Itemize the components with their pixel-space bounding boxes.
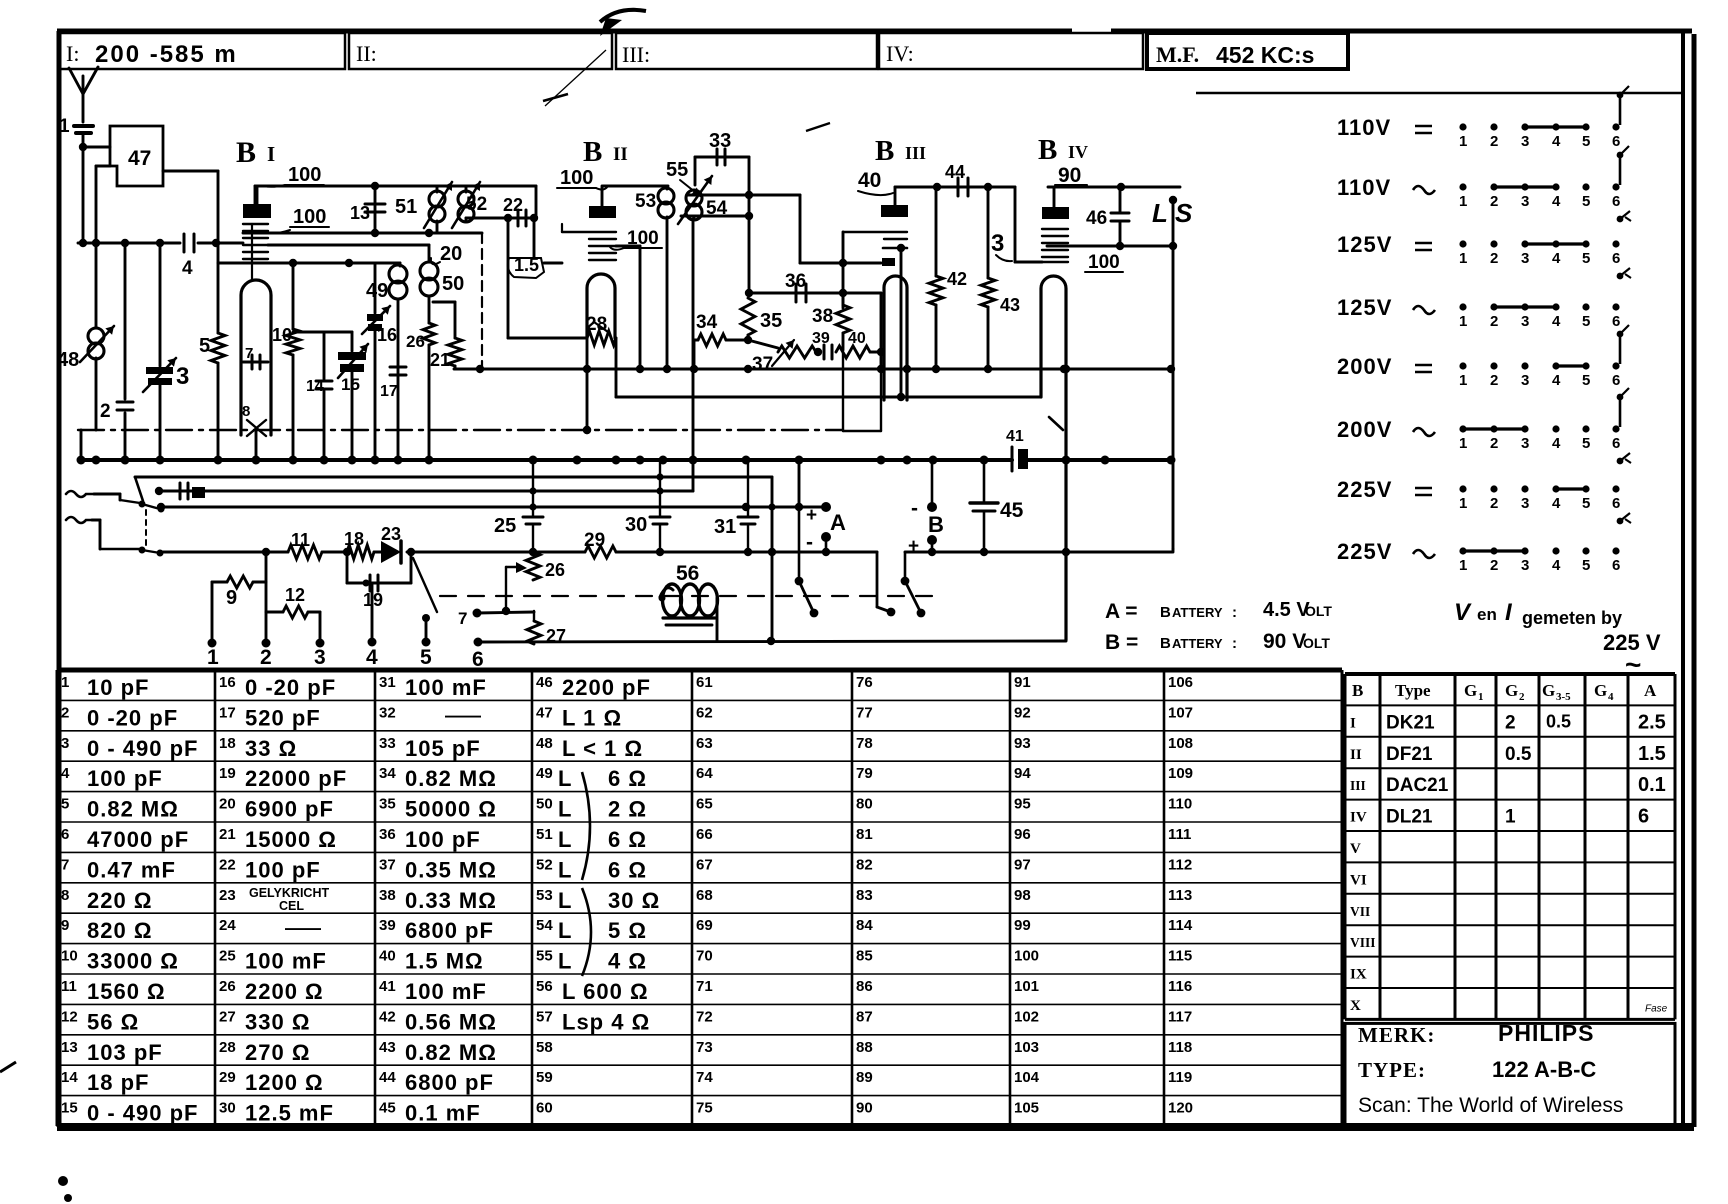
switch A fixed contact	[877, 552, 895, 616]
svg-text:Type: Type	[1395, 681, 1431, 700]
svg-text:2: 2	[1490, 557, 1498, 574]
resistor 26 (volume pot)	[506, 552, 565, 611]
svg-text:4: 4	[1552, 372, 1561, 389]
svg-text:93: 93	[1014, 735, 1031, 752]
resistor 43	[981, 187, 1020, 369]
svg-text:89: 89	[856, 1069, 873, 1086]
svg-text:B: B	[236, 136, 256, 169]
svg-text:78: 78	[856, 735, 873, 752]
svg-text:23: 23	[219, 887, 236, 904]
wire second antenna leg	[80, 430, 83, 460]
svg-text:14: 14	[61, 1069, 78, 1086]
svg-text:4: 4	[61, 765, 70, 782]
wire grid bus y245	[268, 244, 429, 247]
svg-text:gemeten by: gemeten by	[1522, 608, 1622, 628]
svg-text:48: 48	[536, 735, 553, 752]
capacitor 17	[380, 367, 406, 400]
svg-text:113: 113	[1168, 887, 1192, 904]
wire grid return drop x508	[507, 218, 510, 338]
svg-text:30 Ω: 30 Ω	[608, 888, 660, 913]
svg-text:32: 32	[379, 704, 396, 721]
band switch box 47	[110, 126, 163, 186]
svg-text:2: 2	[61, 704, 69, 721]
svg-text:100: 100	[560, 167, 593, 189]
cathode mark B IV	[1049, 417, 1063, 430]
svg-text:V: V	[1350, 841, 1361, 857]
wire AVC drop to 1.5	[533, 218, 536, 257]
svg-text:II:: II:	[356, 41, 377, 66]
wire y246 to LS	[1047, 242, 1177, 250]
svg-text:52: 52	[466, 194, 487, 215]
svg-text:en: en	[1477, 605, 1497, 624]
resistor 10	[272, 263, 300, 460]
svg-text:108: 108	[1168, 735, 1193, 752]
svg-text:4: 4	[1552, 313, 1561, 330]
tube B IV envelope	[1041, 276, 1066, 640]
svg-text:85: 85	[856, 948, 873, 965]
svg-text:4 Ω: 4 Ω	[608, 949, 647, 974]
svg-text:G: G	[1464, 681, 1477, 700]
wire screen drop x843	[843, 232, 881, 431]
svg-text:79: 79	[856, 765, 873, 782]
brace 53-55	[582, 888, 591, 976]
svg-text:V: V	[1454, 599, 1472, 626]
svg-text:43: 43	[1000, 295, 1020, 315]
shield cap blob B I	[243, 186, 271, 218]
svg-text:28: 28	[586, 314, 607, 335]
svg-text:0.82 MΩ: 0.82 MΩ	[405, 1040, 497, 1065]
svg-text:5: 5	[1582, 133, 1590, 150]
svg-text:20: 20	[440, 243, 462, 265]
svg-text:2: 2	[1519, 691, 1525, 703]
svg-text:1: 1	[1459, 133, 1467, 150]
svg-text:33000 Ω: 33000 Ω	[87, 949, 179, 974]
capacitor 7 (in tube I)	[243, 345, 268, 369]
svg-text:6: 6	[1612, 193, 1620, 210]
variable coil 52	[452, 182, 487, 228]
header band cells	[59, 33, 1348, 69]
svg-text:87: 87	[856, 1008, 873, 1025]
label 100 (screen)	[270, 206, 329, 233]
svg-text:47: 47	[128, 147, 151, 170]
wire top link 14/15	[293, 331, 352, 334]
cathode mark B II	[594, 322, 608, 332]
svg-text:105: 105	[1014, 1100, 1039, 1117]
svg-text:60: 60	[536, 1100, 553, 1117]
svg-text:100 pF: 100 pF	[87, 766, 163, 791]
svg-text:DK21: DK21	[1386, 712, 1435, 733]
svg-text:6 Ω: 6 Ω	[608, 857, 647, 882]
svg-text:2: 2	[1490, 313, 1498, 330]
svg-text:5: 5	[1582, 313, 1590, 330]
svg-text:5: 5	[61, 796, 69, 813]
svg-text:50000 Ω: 50000 Ω	[405, 797, 497, 822]
brace 49-52	[582, 772, 590, 880]
svg-text:CEL: CEL	[279, 899, 304, 913]
variable coil 51	[395, 182, 452, 233]
svg-text:520 pF: 520 pF	[245, 705, 321, 730]
svg-text:ATTERY: ATTERY	[1172, 605, 1223, 620]
svg-text:1: 1	[61, 674, 69, 691]
svg-text:33: 33	[709, 130, 731, 152]
wire box47 notch down	[92, 166, 110, 247]
grid wire B III	[843, 232, 907, 239]
variable coil 48	[57, 243, 114, 430]
trimmer capacitor 16	[362, 263, 397, 460]
svg-text:31: 31	[714, 516, 736, 538]
svg-text:66: 66	[696, 826, 713, 843]
svg-text:S: S	[1175, 198, 1193, 228]
svg-text:7: 7	[458, 609, 467, 628]
svg-text:6: 6	[1612, 133, 1620, 150]
label 100 (BII anode)	[557, 167, 608, 190]
svg-text:29: 29	[219, 1069, 236, 1086]
svg-text:0.1 mF: 0.1 mF	[405, 1101, 481, 1126]
svg-text:L < 1 Ω: L < 1 Ω	[562, 736, 643, 761]
svg-text:6800 pF: 6800 pF	[405, 918, 494, 943]
svg-text:42: 42	[947, 269, 967, 289]
svg-text:30: 30	[625, 514, 647, 536]
svg-text:0 - 490 pF: 0 - 490 pF	[87, 1101, 198, 1126]
svg-text:1: 1	[1459, 557, 1467, 574]
parts value table	[57, 670, 1342, 1126]
svg-text:PHILIPS: PHILIPS	[1498, 1020, 1594, 1046]
shield cap blob B IV	[1042, 207, 1069, 219]
svg-text:41: 41	[1006, 428, 1024, 445]
svg-text:20: 20	[219, 796, 236, 813]
svg-text:100: 100	[293, 206, 326, 228]
svg-text:1: 1	[1459, 495, 1467, 512]
svg-text:0.5: 0.5	[1546, 711, 1571, 731]
svg-text:68: 68	[696, 887, 713, 904]
svg-text:DAC21: DAC21	[1386, 775, 1449, 796]
shield cap blob B II	[589, 206, 616, 218]
capacitor 13	[350, 186, 385, 233]
resistor 40	[836, 293, 885, 369]
svg-text:L: L	[558, 888, 571, 913]
svg-text:0.1: 0.1	[1638, 774, 1666, 796]
svg-text:17: 17	[380, 383, 398, 400]
tube data table	[1345, 674, 1675, 1019]
svg-text:1: 1	[1505, 807, 1516, 828]
svg-text:2: 2	[1490, 250, 1498, 267]
svg-text:100 mF: 100 mF	[245, 949, 327, 974]
svg-text:15000 Ω: 15000 Ω	[245, 827, 337, 852]
svg-text:51: 51	[395, 196, 417, 218]
svg-text:94: 94	[1014, 765, 1031, 782]
wire y338 to resistor 28	[508, 337, 587, 340]
svg-text:67: 67	[696, 856, 713, 873]
svg-text:5: 5	[420, 646, 432, 669]
svg-text:5: 5	[1582, 193, 1590, 210]
svg-text:OLT: OLT	[1303, 635, 1330, 651]
svg-text:18: 18	[344, 529, 364, 549]
wire y186 to y218 drop	[535, 186, 538, 218]
tap row 110V ~	[1337, 146, 1631, 222]
svg-text:100 pF: 100 pF	[405, 827, 481, 852]
tap row 125V =	[1337, 232, 1631, 279]
svg-text:36: 36	[785, 271, 806, 292]
svg-text:39: 39	[379, 917, 396, 934]
svg-text:L: L	[558, 797, 571, 822]
svg-text:109: 109	[1168, 765, 1193, 782]
svg-text:82: 82	[856, 856, 873, 873]
svg-text:200V: 200V	[1337, 417, 1392, 442]
svg-text:3: 3	[176, 363, 189, 390]
svg-text:220 Ω: 220 Ω	[87, 888, 152, 913]
capacitor 36	[749, 271, 881, 302]
svg-text:6: 6	[1612, 372, 1620, 389]
svg-text:107: 107	[1168, 704, 1193, 721]
svg-text:81: 81	[856, 826, 873, 843]
svg-text:13: 13	[350, 203, 370, 223]
grid stack B II	[562, 224, 616, 260]
svg-text:G: G	[1542, 681, 1555, 700]
svg-text:41: 41	[379, 978, 396, 995]
svg-text:ATTERY: ATTERY	[1172, 636, 1223, 651]
svg-text:46: 46	[536, 674, 553, 691]
capacitor 41	[1006, 428, 1028, 471]
svg-text:0.33 MΩ: 0.33 MΩ	[405, 888, 497, 913]
svg-text:0 -20 pF: 0 -20 pF	[87, 705, 178, 730]
label 20 with leader	[431, 243, 462, 265]
svg-text:A: A	[1644, 681, 1657, 700]
svg-text:18 pF: 18 pF	[87, 1070, 149, 1095]
svg-text:2200 Ω: 2200 Ω	[245, 979, 324, 1004]
svg-text:26: 26	[406, 332, 425, 351]
svg-text:L: L	[558, 857, 571, 882]
svg-text:B: B	[928, 512, 944, 537]
svg-text:65: 65	[696, 796, 713, 813]
svg-text:53: 53	[536, 887, 553, 904]
svg-text:38: 38	[379, 887, 396, 904]
switch A lever	[795, 507, 819, 617]
svg-text:95: 95	[1014, 796, 1031, 813]
svg-text:24: 24	[219, 917, 236, 934]
svg-text:102: 102	[1014, 1008, 1039, 1025]
svg-text:39: 39	[812, 330, 830, 347]
svg-text:46: 46	[1086, 208, 1107, 229]
svg-text:34: 34	[696, 312, 718, 333]
wire chassis dash-dot y430	[78, 426, 843, 434]
svg-text:100 mF: 100 mF	[405, 979, 487, 1004]
battery B terminals	[908, 460, 944, 557]
wire y233 drop (dashed)	[481, 233, 483, 369]
svg-text:75: 75	[696, 1100, 713, 1117]
svg-text:10 pF: 10 pF	[87, 675, 149, 700]
svg-text:125V: 125V	[1337, 232, 1392, 257]
svg-text:8: 8	[61, 887, 69, 904]
svg-text:88: 88	[856, 1039, 873, 1056]
svg-text:28: 28	[219, 1039, 236, 1056]
svg-text:6800 pF: 6800 pF	[405, 1070, 494, 1095]
capacitor 4	[182, 234, 194, 279]
svg-text:31: 31	[379, 674, 396, 691]
svg-text:5: 5	[1582, 250, 1590, 267]
svg-text:A: A	[830, 510, 846, 535]
svg-text:116: 116	[1168, 978, 1192, 995]
svg-text:112: 112	[1168, 856, 1192, 873]
svg-text:3: 3	[1521, 557, 1529, 574]
mains input prongs	[66, 491, 120, 549]
svg-text:3: 3	[1521, 133, 1529, 150]
resistor 18	[344, 529, 374, 559]
svg-text:4: 4	[1552, 250, 1561, 267]
svg-text:76: 76	[856, 674, 873, 691]
wire BII screen drop	[616, 246, 640, 368]
svg-text:200 -585 m: 200 -585 m	[95, 41, 238, 68]
label 90 underlined	[1055, 164, 1087, 187]
svg-text:110V: 110V	[1337, 175, 1391, 200]
wire AVC vertical x749	[745, 157, 753, 297]
svg-text:42: 42	[379, 1008, 396, 1025]
trimmer capacitor 3	[143, 243, 189, 460]
svg-text:IV:: IV:	[886, 41, 914, 66]
label 100 (anode)	[264, 164, 324, 187]
resistor 12 branch	[266, 585, 320, 643]
svg-text:57: 57	[536, 1008, 553, 1025]
svg-text:52: 52	[536, 856, 553, 873]
svg-text:77: 77	[856, 704, 873, 721]
svg-text:50: 50	[536, 796, 553, 813]
svg-text:5: 5	[1582, 372, 1590, 389]
svg-text:330 Ω: 330 Ω	[245, 1009, 310, 1034]
svg-text:15: 15	[61, 1100, 78, 1117]
svg-text:DL21: DL21	[1386, 807, 1433, 828]
svg-text:100: 100	[1088, 252, 1120, 273]
svg-text:M.F.: M.F.	[1156, 42, 1199, 67]
resistor 34	[694, 312, 752, 369]
svg-text:6: 6	[1612, 495, 1620, 512]
svg-text:15: 15	[341, 375, 360, 394]
svg-text:44: 44	[945, 162, 965, 182]
svg-text:72: 72	[696, 1008, 713, 1025]
svg-text:B: B	[583, 136, 602, 168]
svg-text:3: 3	[61, 735, 69, 752]
svg-text:DF21: DF21	[1386, 744, 1433, 765]
svg-text:2: 2	[1490, 133, 1498, 150]
wire rail y477	[135, 477, 772, 501]
svg-text:37: 37	[752, 354, 773, 375]
svg-text:36: 36	[379, 826, 396, 843]
tap row 200V ~	[1337, 388, 1631, 464]
svg-text:69: 69	[696, 917, 713, 934]
svg-text:92: 92	[1014, 704, 1031, 721]
svg-text:33: 33	[379, 735, 396, 752]
grid stack B I	[243, 224, 268, 280]
svg-text:117: 117	[1168, 1008, 1192, 1025]
svg-text:45: 45	[1000, 499, 1024, 522]
svg-text:99: 99	[1014, 917, 1031, 934]
note V en I gemeten by	[1454, 599, 1661, 680]
svg-text:1: 1	[207, 646, 219, 669]
svg-text:56: 56	[536, 978, 553, 995]
label 55 with arrow	[666, 159, 700, 196]
svg-text:1: 1	[1478, 691, 1484, 703]
svg-text:1560 Ω: 1560 Ω	[87, 979, 166, 1004]
switch contact capacitor 11s	[180, 483, 205, 499]
svg-text:G: G	[1594, 681, 1607, 700]
svg-text:19: 19	[363, 590, 383, 610]
svg-text:11: 11	[291, 530, 310, 550]
wire antenna to box	[79, 143, 110, 151]
output coil 56	[659, 562, 718, 641]
capacitor 30	[625, 460, 670, 552]
label 100 (BIV)	[1085, 252, 1123, 273]
svg-text:L: L	[558, 766, 571, 791]
svg-text:3-5: 3-5	[1556, 691, 1571, 703]
wire anode feed y186	[255, 182, 536, 204]
svg-text:16: 16	[219, 674, 236, 691]
svg-text:2: 2	[100, 401, 111, 422]
svg-text:50: 50	[442, 273, 464, 295]
svg-text:VIII: VIII	[1350, 935, 1376, 950]
tap row 110V =	[1337, 86, 1629, 150]
svg-text:4: 4	[1552, 133, 1561, 150]
svg-text:3: 3	[991, 230, 1004, 257]
svg-text:84: 84	[856, 917, 873, 934]
svg-text:3: 3	[1521, 250, 1529, 267]
capacitor 2	[100, 243, 133, 460]
svg-text:103 pF: 103 pF	[87, 1040, 163, 1065]
anode bar B III	[800, 244, 907, 397]
wire main bus y460	[77, 456, 1176, 465]
svg-text:54: 54	[536, 917, 553, 934]
svg-text:27: 27	[219, 1008, 236, 1025]
svg-text:0 - 490 pF: 0 - 490 pF	[87, 736, 198, 761]
svg-text:29: 29	[584, 530, 605, 551]
svg-text:10: 10	[61, 948, 78, 965]
svg-text:1: 1	[1459, 372, 1467, 389]
tube B I envelope	[241, 280, 271, 435]
antenna	[69, 67, 98, 122]
svg-text:B: B	[1352, 681, 1363, 700]
svg-text:71: 71	[696, 978, 713, 995]
svg-text:104: 104	[1014, 1069, 1040, 1086]
svg-text:80: 80	[856, 796, 873, 813]
tube B II envelope	[587, 274, 615, 338]
resistor 28	[586, 314, 616, 345]
battery note A	[1105, 599, 1332, 623]
svg-text:+: +	[908, 536, 919, 557]
svg-text:105 pF: 105 pF	[405, 736, 481, 761]
svg-text:5: 5	[199, 335, 210, 357]
svg-text:L 600 Ω: L 600 Ω	[562, 979, 649, 1004]
oscillator coil 49	[366, 263, 407, 460]
svg-text:L: L	[558, 949, 571, 974]
svg-text:70: 70	[696, 948, 713, 965]
switch contact 5	[413, 558, 437, 642]
svg-text:23: 23	[381, 524, 401, 544]
svg-text:MERK:: MERK:	[1358, 1023, 1435, 1047]
svg-text:L: L	[558, 918, 571, 943]
svg-text:33 Ω: 33 Ω	[245, 736, 297, 761]
svg-text:IV: IV	[1350, 810, 1367, 826]
svg-text:40: 40	[379, 948, 396, 965]
loudspeaker label L S	[1152, 198, 1193, 228]
resistor 27	[527, 611, 566, 646]
svg-text:4: 4	[366, 646, 378, 669]
resistor 42	[929, 187, 967, 369]
oscillator coil 50	[420, 245, 464, 323]
mains switch	[100, 500, 165, 557]
svg-text:1200 Ω: 1200 Ω	[245, 1070, 324, 1095]
svg-text:6900 pF: 6900 pF	[245, 797, 334, 822]
svg-text:2: 2	[1490, 435, 1498, 452]
resistor 5	[199, 243, 225, 460]
capacitor 25	[494, 460, 543, 552]
svg-text:B: B	[1160, 635, 1171, 652]
